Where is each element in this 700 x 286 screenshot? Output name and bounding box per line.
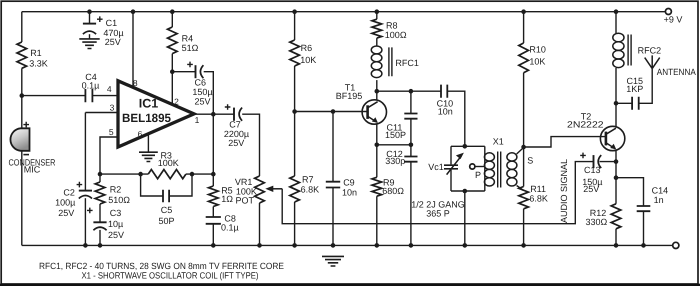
terminal X1 tap P [470,164,485,180]
svg-text:365 P: 365 P [426,208,450,218]
capacitor C14 [616,178,668,212]
svg-text:10µ: 10µ [108,219,123,229]
op-amp IC1 BEL1895 [118,81,194,147]
wire C7 to VR1 [242,114,259,176]
wire R11 to bus [523,209,525,246]
node C9 top [331,109,336,114]
svg-text:Vc1: Vc1 [428,162,444,172]
node C15 junction [614,101,619,106]
wire C4 to pin 4 [92,84,118,95]
resistor R5 [209,174,234,206]
svg-text:C1: C1 [106,18,118,28]
svg-text:R8: R8 [386,20,398,30]
wire R10 to S node [523,73,525,147]
wire emitter to C14 node [615,162,617,178]
wire pin 1 output [193,114,213,125]
resistor R12 [585,178,620,229]
resistor R1 [17,42,48,69]
wire R12 to bus [615,229,617,246]
wire T2 collector [615,103,617,127]
svg-text:R2: R2 [110,184,122,194]
resistor R3 [148,150,186,178]
svg-text:3: 3 [110,102,115,112]
wire mic node to C4 [22,95,86,97]
inductor RFC2 [613,12,661,104]
wire T1 emitter [376,124,378,145]
svg-text:R1: R1 [30,48,42,58]
wire tank bottom [451,190,485,192]
svg-text:4: 4 [107,84,112,94]
svg-text:10K: 10K [529,56,545,66]
node T1 collector [375,89,380,94]
svg-text:R11: R11 [530,184,546,194]
node C11 top [409,89,414,94]
svg-text:1KP: 1KP [626,84,643,94]
node R6 on rail [292,9,297,14]
capacitor C6 [172,62,212,107]
wire R7 to bus [294,202,296,245]
wire pin 6 [138,129,149,152]
svg-text:BEL1895: BEL1895 [122,111,171,125]
node R9 on bus [375,243,380,248]
node pin2/C6 [170,69,175,74]
svg-text:+9 V: +9 V [664,14,683,24]
svg-text:C5: C5 [161,205,173,215]
svg-text:R10: R10 [529,45,546,55]
svg-text:100K: 100K [158,158,179,168]
svg-text:3.3K: 3.3K [29,59,48,69]
wire rail to R6 [294,12,296,40]
svg-text:0.1µ: 0.1µ [221,223,239,233]
wire R9 to bus [376,196,378,245]
label gang capacitor [411,199,465,218]
wire R6 to base node [294,66,296,112]
node C12 on bus [409,243,414,248]
svg-text:0.1µ: 0.1µ [82,80,100,90]
variable capacitor Vc1 [428,146,464,191]
transistor T1 BF195 [336,82,387,124]
wire pin 5 [100,127,119,174]
svg-text:IC1: IC1 [139,97,159,111]
svg-text:50P: 50P [158,216,174,226]
resistor R2 [95,174,130,205]
svg-text:330Ω: 330Ω [585,217,607,227]
wire rail to pin 8 [133,12,138,88]
svg-text:AUDIO SIGNAL: AUDIO SIGNAL [559,159,569,223]
wire pin3 down to C2 [84,113,86,191]
node R4 on rail [170,9,175,14]
terminal output [673,242,679,248]
capacitor C15 [616,76,643,110]
svg-text:10K: 10K [300,55,316,65]
svg-text:P: P [475,170,481,180]
condenser mic MIC1 [9,122,56,175]
wire C3 to bus [99,230,101,246]
transformer X1 primary [484,136,503,191]
capacitor C4 [82,72,100,102]
svg-text:RFC1, RFC2 - 40 TURNS, 28 SWG: RFC1, RFC2 - 40 TURNS, 28 SWG ON 8mm TV … [39,261,284,271]
node R10 on rail [521,9,526,14]
inductor RFC1 [371,38,419,91]
wire rail to R1 [21,12,23,42]
resistor R11 [519,147,548,209]
wire mic to ground bus [21,150,23,245]
wire collector row [377,90,441,92]
wire rail to R8 [376,12,378,20]
svg-text:C6: C6 [195,78,207,88]
svg-text:C13: C13 [584,165,601,175]
wire ground bus [22,244,673,246]
node R11 on bus [521,243,526,248]
resistor R8 [372,19,407,40]
node R12 on bus [614,243,619,248]
wire C6 to output node [204,72,214,115]
svg-text:6.8K: 6.8K [529,194,548,204]
ground IC pin6 [139,152,158,161]
svg-text:C14: C14 [652,185,669,195]
resistor R4 [168,27,199,54]
svg-text:C3: C3 [110,208,122,218]
svg-text:RFC1: RFC1 [395,58,419,68]
capacitor C9 [326,112,357,198]
svg-text:2: 2 [174,97,179,107]
node pin8 on rail [131,9,136,14]
wire T1 collector [376,91,378,100]
transistor T2 2N2222 [567,112,625,151]
svg-text:RFC2: RFC2 [638,46,662,56]
caption line 2 [82,270,259,280]
svg-text:10n: 10n [438,107,453,117]
capacitor C13 [580,153,602,195]
capacitor C10 [437,85,454,117]
svg-text:X1 - SHORTWAVE OSCILLATOR COIL: X1 - SHORTWAVE OSCILLATOR COIL (IFT TYPE… [82,270,259,280]
wire rail to R10 [523,12,525,43]
node C8 on bus [211,243,216,248]
wire C12 to bus [410,162,412,246]
wire C13 to emitter [600,161,617,163]
node C2 on bus [83,243,88,248]
svg-text:100Ω: 100Ω [385,30,407,40]
svg-text:R4: R4 [182,33,194,43]
ground C1 [79,39,99,49]
wire C15 to antenna [639,69,653,104]
capacitor C2 [55,182,92,218]
node R2 top [98,172,103,177]
node C9 on bus [331,243,336,248]
wire node to mic [21,96,23,129]
svg-text:5: 5 [109,127,114,137]
wire R3 to output column [186,173,213,175]
wire R1 to mic node [21,68,23,95]
svg-text:R6: R6 [301,43,313,53]
capacitor C7 [213,104,249,148]
svg-text:100µ: 100µ [55,198,75,208]
wire T2 emitter [615,150,617,161]
capacitor C8 [206,207,239,233]
label audio signal [559,159,569,223]
node C13 junction [614,159,619,164]
wire C8 to bus [212,224,214,246]
node C14 branch [614,175,619,180]
svg-text:R7: R7 [302,174,314,184]
svg-text:25V: 25V [583,184,599,194]
capacitor C5 [141,174,192,226]
wire R2 node to R3 [100,173,148,175]
svg-text:510Ω: 510Ω [108,195,130,205]
wire tank top [451,145,485,147]
node R1/C4/mic junction [20,93,25,98]
wire rail to R4 [171,12,173,27]
resistor R7 [290,112,319,203]
terminal +9V [664,9,683,25]
node R3 row right [211,172,216,177]
svg-text:51Ω: 51Ω [182,43,199,53]
caption line 1 [39,261,284,271]
wire base row [295,111,367,113]
node S junction [521,145,526,150]
node C14 on bus [641,243,646,248]
transformer X1 secondary [507,148,533,191]
node C5 left [138,172,143,177]
node R7 on bus [292,243,297,248]
node tank on bus [463,243,468,248]
node tank bottom [463,189,468,194]
svg-text:6: 6 [138,129,143,139]
node emitter row left [375,143,380,148]
svg-text:X1: X1 [493,136,504,146]
wire emitter row [377,144,411,146]
svg-text:S: S [527,155,533,165]
wire audio signal from wiper [282,162,593,224]
resistor R9 [372,145,404,196]
resistor R6 [290,40,316,66]
capacitor C11 [385,91,418,145]
svg-text:6.8K: 6.8K [301,184,320,194]
node emitter row right [409,143,414,148]
svg-text:2N2222: 2N2222 [567,120,604,130]
wire R4 to C6 node [171,54,173,72]
wiper arrow VR1 [265,186,282,192]
svg-text:25V: 25V [194,96,210,106]
svg-text:1: 1 [195,115,200,125]
node base row left [292,109,297,114]
svg-text:POT: POT [235,195,254,205]
wire output node down [212,114,214,174]
svg-text:25V: 25V [228,138,244,148]
svg-text:25V: 25V [108,230,124,240]
node tank top [463,144,468,149]
svg-text:680Ω: 680Ω [382,186,404,196]
ground main bus [322,256,344,266]
node C3 on bus [98,243,103,248]
capacitor C3 [87,204,124,240]
potentiometer VR1 [235,176,264,205]
svg-text:25V: 25V [105,37,121,47]
svg-text:330p: 330p [385,156,405,166]
wire C14 to bus [643,211,645,245]
svg-text:C7: C7 [229,119,241,129]
svg-text:150P: 150P [385,130,406,140]
wire pin 3 [85,102,118,112]
svg-text:10n: 10n [342,187,357,197]
wire pin 2 [172,72,179,107]
node RFC2 on rail [614,9,619,14]
svg-text:1n: 1n [654,195,664,205]
capacitor C12 [385,145,417,166]
svg-text:1Ω: 1Ω [221,194,233,204]
transformer X1 core [498,152,501,188]
node output junction [211,112,216,117]
antenna [645,55,696,77]
capacitor C1 [83,12,124,48]
node VR1 on bus [257,243,262,248]
wire S to T2 base [524,137,606,147]
svg-text:BF195: BF195 [336,91,363,101]
wire tank to bus [464,191,466,245]
svg-text:25V: 25V [58,208,74,218]
wire C9 to bus [332,188,334,246]
wire +9V supply rail [22,11,666,13]
svg-text:ANTENNA: ANTENNA [657,67,696,77]
svg-text:MIC: MIC [24,165,41,175]
wire VR1 to bus [259,203,261,245]
wire C2 to bus [84,198,86,245]
resistor R10 [519,43,546,73]
wire C10 to tank [447,91,465,146]
node R8 on rail [375,9,380,14]
node C5 right [190,172,195,177]
node C1 on rail [87,9,92,14]
svg-text:C9: C9 [343,177,355,187]
svg-text:C2: C2 [63,187,75,197]
